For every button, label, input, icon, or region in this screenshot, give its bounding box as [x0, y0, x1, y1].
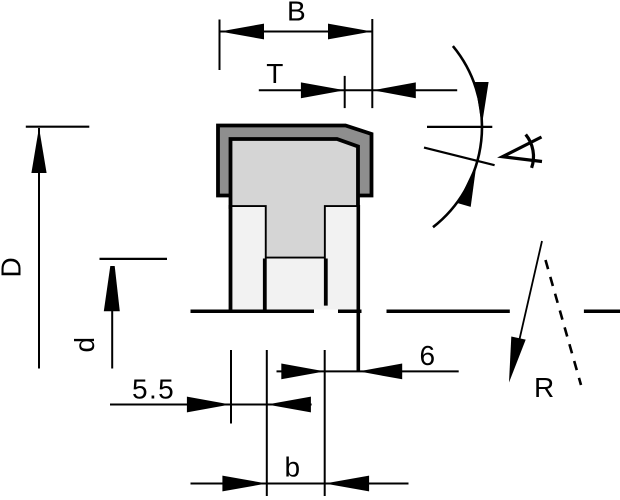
svg-text:6: 6	[420, 340, 436, 371]
right leg outer edge extended down as extension line	[356, 205, 360, 371]
angle upper arrow (pointing down along arc)	[475, 82, 489, 126]
dimension B arrow left	[220, 24, 264, 40]
R leader line	[512, 241, 542, 372]
dimension 6 line	[277, 370, 459, 372]
dimension T arrow right (pointing left)	[373, 82, 416, 98]
angle symbol	[503, 137, 543, 162]
left leg outer edge	[229, 205, 233, 312]
shaft baseline segment 2	[338, 310, 362, 314]
dimension 5.5 line	[110, 404, 312, 406]
dimension 5.5 arrow right (pointing left)	[267, 397, 311, 413]
svg-text:b: b	[285, 452, 301, 483]
svg-text:T: T	[266, 58, 283, 89]
shaft baseline segment 4	[584, 310, 620, 314]
dimension T line	[259, 89, 457, 91]
dimension D vertical line	[38, 128, 40, 369]
dimension D top tick	[26, 126, 90, 128]
R leader arrow	[509, 337, 526, 383]
dimension b line	[191, 483, 409, 485]
angle lower tick (slanted side)	[424, 148, 495, 166]
svg-text:R: R	[534, 372, 554, 403]
shaft baseline segment 1	[191, 310, 315, 314]
shared extension line (5.5 right / b left)	[266, 350, 268, 496]
dimension T arrow left (pointing right)	[301, 82, 345, 98]
dimension d vertical line	[111, 266, 113, 369]
dimension d top tick	[100, 258, 168, 260]
dimension B extension line left	[219, 20, 221, 71]
right inner vertical	[324, 259, 328, 306]
dimension b arrow left (pointing right)	[222, 476, 266, 492]
R dashed line	[546, 260, 582, 385]
dimension 6 arrow right (pointing left)	[359, 364, 402, 380]
seal body insert (light gray)	[231, 139, 359, 259]
angle dimension arc	[433, 46, 482, 227]
shaft baseline segment 3	[387, 310, 510, 314]
seal outer cap (dark gray head)	[218, 126, 372, 196]
dimension d arrow (up)	[104, 266, 120, 311]
svg-text:5.5: 5.5	[132, 373, 175, 404]
seal lower legs (off-white)	[231, 207, 359, 310]
dimension T tick	[344, 76, 346, 108]
dimension B extension line right	[371, 19, 373, 108]
dimension 5.5 extension line left	[230, 350, 232, 424]
dimension B line	[220, 31, 373, 33]
angle lower arrow (pointing up along arc)	[458, 163, 477, 207]
extension line (b right / 6 left)	[324, 350, 326, 496]
angle upper tick (horizontal side)	[427, 126, 492, 128]
left inner vertical	[263, 259, 267, 313]
dimension B arrow right	[328, 24, 372, 40]
svg-text:B: B	[287, 0, 306, 26]
dimension 6 arrow left (pointing right)	[281, 364, 324, 380]
svg-text:d: d	[69, 337, 100, 353]
dimension b arrow right (pointing left)	[325, 476, 369, 492]
svg-text:D: D	[0, 257, 27, 277]
dimension 5.5 arrow left (pointing right)	[187, 397, 230, 413]
dimension D arrow (up)	[31, 128, 46, 174]
